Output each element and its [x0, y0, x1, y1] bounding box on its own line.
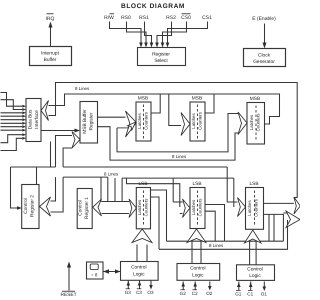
svg-text:÷ 8: ÷ 8 — [91, 273, 98, 278]
svg-text:8 Lines: 8 Lines — [172, 154, 187, 159]
svg-text:Select: Select — [154, 58, 168, 64]
svg-text:Clock: Clock — [258, 53, 271, 59]
svg-text:RESET: RESET — [61, 292, 77, 298]
svg-text:C1: C1 — [247, 292, 253, 297]
svg-text:Interface: Interface — [34, 110, 40, 129]
svg-text:Counters: Counters — [144, 198, 149, 217]
svg-text:MSB: MSB — [250, 96, 260, 102]
svg-text:MSB Buffer: MSB Buffer — [82, 109, 88, 134]
svg-text:Register 1: Register 1 — [84, 197, 90, 219]
svg-text:8 Lines: 8 Lines — [209, 243, 224, 248]
svg-text:R/W: R/W — [104, 15, 114, 21]
svg-text:Counters: Counters — [198, 111, 203, 130]
svg-text:Latches: Latches — [247, 200, 252, 216]
svg-text:Counters: Counters — [254, 198, 259, 217]
svg-text:Logic: Logic — [249, 273, 261, 279]
svg-text:C3: C3 — [136, 290, 142, 295]
svg-text:G2: G2 — [180, 291, 187, 296]
svg-text:E (Enable): E (Enable) — [252, 16, 276, 22]
svg-text:Interrupt: Interrupt — [41, 51, 60, 57]
svg-text:Latches: Latches — [249, 114, 254, 130]
svg-text:Counters: Counters — [144, 111, 149, 130]
svg-text:Control: Control — [247, 267, 262, 273]
svg-text:Latches: Latches — [137, 113, 142, 129]
svg-text:MSB: MSB — [138, 96, 148, 102]
svg-text:Control: Control — [78, 200, 84, 215]
svg-text:Counters: Counters — [198, 198, 203, 217]
svg-text:8 Lines: 8 Lines — [104, 172, 119, 177]
svg-text:O3: O3 — [147, 290, 154, 295]
svg-text:Latches: Latches — [137, 199, 142, 215]
svg-text:LSB: LSB — [192, 181, 201, 187]
svg-text:Control: Control — [190, 266, 205, 272]
svg-text:Latches: Latches — [191, 113, 196, 129]
svg-text:Counters: Counters — [256, 113, 261, 132]
svg-text:Control: Control — [131, 265, 146, 271]
svg-text:CS0: CS0 — [181, 15, 191, 21]
svg-text:Register: Register — [152, 52, 170, 58]
svg-text:MSB: MSB — [192, 96, 202, 102]
svg-text:Register: Register — [89, 112, 95, 130]
svg-text:Data Bus: Data Bus — [28, 109, 34, 129]
svg-text:G3: G3 — [125, 290, 132, 295]
svg-text:Control: Control — [23, 198, 29, 213]
svg-text:G1: G1 — [235, 292, 242, 297]
svg-text:Logic: Logic — [192, 273, 204, 279]
svg-text:BLOCK DIAGRAM: BLOCK DIAGRAM — [121, 3, 185, 10]
svg-text:CS1: CS1 — [202, 15, 212, 21]
svg-text:Latches: Latches — [191, 199, 196, 215]
svg-text:O1: O1 — [261, 292, 268, 297]
svg-text:LSB: LSB — [249, 181, 258, 187]
svg-text:8 Lines: 8 Lines — [75, 86, 90, 91]
svg-text:Generator: Generator — [253, 59, 275, 65]
svg-text:C2: C2 — [192, 291, 198, 296]
svg-text:Register 2: Register 2 — [30, 195, 36, 217]
svg-text:LSB: LSB — [138, 181, 147, 187]
svg-text:Logic: Logic — [133, 272, 145, 278]
svg-text:O2: O2 — [206, 291, 213, 296]
svg-text:RS2: RS2 — [166, 15, 176, 21]
svg-text:RS0: RS0 — [121, 15, 131, 21]
svg-text:Buffer: Buffer — [44, 57, 57, 63]
svg-text:IRQ: IRQ — [46, 16, 55, 22]
svg-text:RS1: RS1 — [139, 15, 149, 21]
